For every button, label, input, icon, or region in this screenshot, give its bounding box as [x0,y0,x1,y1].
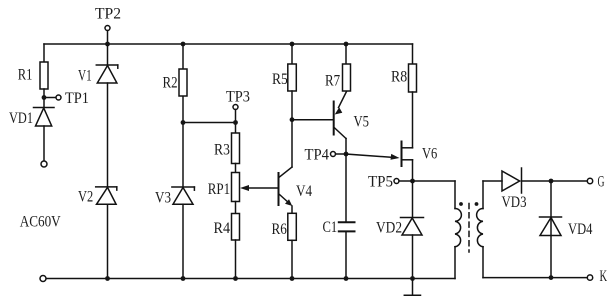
svg-text:TP3: TP3 [226,89,250,106]
svg-text:TP5: TP5 [368,174,393,191]
svg-text:R5: R5 [272,71,288,88]
svg-text:R4: R4 [214,220,231,237]
svg-text:R3: R3 [214,142,230,159]
svg-text:VD4: VD4 [568,221,592,238]
svg-text:R2: R2 [163,75,178,92]
svg-text:RP1: RP1 [208,181,230,198]
svg-text:V2: V2 [78,189,93,206]
svg-text:V5: V5 [354,114,370,131]
svg-text:R6: R6 [272,221,287,238]
svg-text:V3: V3 [155,190,171,207]
svg-text:VD1: VD1 [9,110,33,127]
svg-text:V1: V1 [78,68,92,85]
svg-text:V4: V4 [296,183,312,200]
svg-text:TP4: TP4 [305,147,330,164]
svg-text:R1: R1 [18,67,33,84]
svg-text:C1: C1 [323,219,338,236]
svg-text:K: K [600,268,608,285]
svg-text:TP2: TP2 [95,6,121,23]
svg-text:VD3: VD3 [502,194,527,211]
svg-text:R8: R8 [391,69,407,86]
svg-text:VD2: VD2 [376,220,402,237]
svg-text:TP1: TP1 [65,90,89,107]
svg-text:AC60V: AC60V [20,213,61,230]
svg-text:V6: V6 [422,146,437,163]
svg-text:G: G [598,174,605,191]
svg-text:R7: R7 [325,73,340,90]
